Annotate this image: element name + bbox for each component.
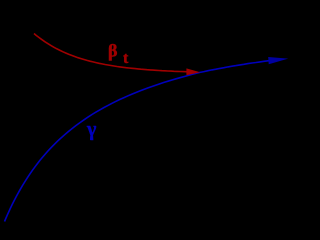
svg-text:β: β (108, 41, 117, 61)
arrowhead of gamma (blue) (268, 57, 288, 64)
arrowhead of beta_t (red) (186, 68, 200, 75)
curve gamma (blue) (5, 60, 272, 221)
svg-text:t: t (123, 50, 129, 67)
svg-text:γ: γ (86, 119, 97, 141)
curve beta_t (red) (34, 34, 190, 72)
